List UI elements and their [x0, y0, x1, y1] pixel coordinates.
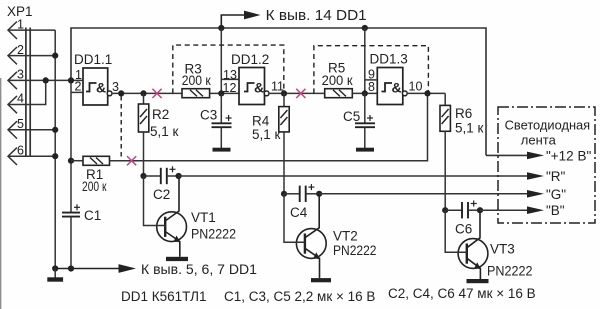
- svg-text:C3: C3: [200, 108, 217, 123]
- svg-text:6: 6: [17, 143, 24, 157]
- svg-text:5,1 к: 5,1 к: [150, 124, 179, 139]
- svg-text:К выв. 14 DD1: К выв. 14 DD1: [266, 8, 367, 24]
- svg-text:10: 10: [409, 80, 423, 94]
- node: rail to DD1.2 branch: [218, 25, 224, 31]
- svg-text:200 к: 200 к: [322, 73, 353, 88]
- node: rail to DD1.3 branch: [362, 25, 368, 31]
- transistor Q3: VT3: [445, 210, 532, 283]
- svg-text:&: &: [392, 80, 402, 96]
- wire: rail drop to channel3 node: [364, 28, 366, 93]
- connector XP1 pin 1: [8, 22, 55, 40]
- svg-text:C6: C6: [455, 222, 472, 237]
- connector XP1 pin 3: [8, 72, 83, 89]
- svg-text:С1, С3, С5 2,2 мк × 16 В: С1, С3, С5 2,2 мк × 16 В: [224, 289, 375, 304]
- cut mark X1: [152, 89, 161, 98]
- op-amp U1: gate DD1.1: [71, 52, 119, 105]
- svg-text:&: &: [254, 80, 264, 96]
- connector XP1 pin 4: [8, 80, 46, 113]
- svg-text:4: 4: [17, 92, 24, 106]
- capacitor C4: [281, 184, 322, 220]
- svg-text:12: 12: [223, 81, 237, 95]
- cut mark X3: [127, 156, 136, 165]
- node: DD1.1 input junction: [68, 77, 74, 83]
- node: feedback branch: [424, 90, 430, 96]
- dashed suggestion line: [120, 96, 122, 158]
- pin 13 stub: [221, 78, 239, 80]
- node: channel2 input: [218, 90, 224, 96]
- node: pin5 junction: [52, 127, 58, 133]
- capacitor C6: [442, 201, 483, 237]
- wire: B row: [480, 209, 528, 211]
- svg-text:DD1.2: DD1.2: [231, 52, 269, 67]
- svg-text:3: 3: [17, 68, 24, 82]
- svg-text:2: 2: [17, 43, 24, 57]
- arrow to pin 14 DD1: [221, 15, 244, 28]
- svg-text:5: 5: [17, 117, 24, 131]
- svg-text:VT1: VT1: [191, 210, 216, 225]
- pin 9 stub: [365, 79, 378, 81]
- svg-text:"B": "B": [546, 203, 565, 218]
- svg-text:DD1.1: DD1.1: [74, 52, 112, 67]
- svg-text:8: 8: [368, 80, 375, 94]
- output bubble pin 10: [402, 91, 407, 96]
- resistor R2: [138, 93, 178, 176]
- svg-text:C4: C4: [290, 205, 308, 220]
- node: pins3-4 junction: [43, 77, 49, 83]
- connector XP1 body double line: [26, 28, 30, 157]
- svg-text:PN2222: PN2222: [191, 227, 236, 242]
- channel 3 dashed box: [314, 46, 429, 94]
- LED strip box: [498, 107, 595, 223]
- wire: rail drop to channel2 node: [220, 28, 222, 93]
- svg-text:PN2222: PN2222: [333, 243, 377, 258]
- resistor R1: [68, 156, 110, 194]
- svg-text:DD1 К561ТЛ1: DD1 К561ТЛ1: [121, 289, 206, 304]
- svg-text:5,1 к: 5,1 к: [455, 121, 484, 136]
- svg-text:200 к: 200 к: [182, 73, 211, 88]
- output bubble pin 3: [107, 91, 112, 96]
- node: pin6 junction: [52, 153, 58, 159]
- wire: R row: [179, 175, 528, 177]
- svg-text:PN2222: PN2222: [487, 264, 533, 279]
- svg-text:&: &: [96, 80, 106, 96]
- wire: feedback row: [110, 93, 428, 160]
- svg-text:"+12 В": "+12 В": [546, 149, 591, 164]
- svg-text:Светодиодная: Светодиодная: [505, 117, 591, 132]
- resistor R4: [252, 93, 289, 193]
- transistor Q1: VT1: [144, 176, 237, 261]
- node: channel3 input: [362, 90, 368, 96]
- wire: +12 rail top: [71, 28, 486, 155]
- scan edge artifact: [0, 78, 2, 309]
- svg-text:C2: C2: [153, 187, 170, 202]
- wire: input bus x=71 down to C1: [70, 80, 72, 212]
- wire: DD1.3 output to R6: [408, 92, 445, 94]
- svg-text:К выв. 5, 6, 7 DD1: К выв. 5, 6, 7 DD1: [141, 261, 257, 277]
- capacitor C1: [62, 204, 101, 268]
- op-amp U2: gate DD1.2: [221, 52, 284, 105]
- svg-text:VT2: VT2: [333, 229, 358, 244]
- hysteresis symbol: [86, 83, 97, 92]
- svg-text:200 к: 200 к: [82, 179, 107, 194]
- pin 2 stub: [71, 91, 83, 93]
- svg-text:VT3: VT3: [490, 242, 515, 257]
- wire: G row: [319, 193, 528, 195]
- wire: DD1.1 output to R3: [113, 92, 182, 94]
- svg-text:1: 1: [17, 17, 24, 31]
- capacitor C5: [343, 93, 375, 151]
- cut mark X2: [296, 89, 305, 98]
- svg-text:R6: R6: [455, 106, 472, 121]
- svg-text:С2, С4, С6 47 мк × 16 В: С2, С4, С6 47 мк × 16 В: [388, 286, 536, 301]
- resistor R5: [322, 61, 378, 98]
- svg-text:лента: лента: [521, 132, 557, 147]
- resistor R3: [182, 62, 239, 98]
- capacitor C3: [200, 93, 232, 151]
- node: pin2 junction: [52, 53, 58, 59]
- connector XP1 pin 2: [8, 47, 55, 64]
- svg-text:C5: C5: [343, 109, 360, 124]
- svg-text:"G": "G": [546, 187, 566, 202]
- transistor Q2: VT2: [284, 194, 377, 283]
- svg-text:DD1.3: DD1.3: [370, 52, 408, 67]
- connector XP1 pin 5: [8, 121, 55, 138]
- svg-text:3: 3: [112, 80, 119, 94]
- wire: +12V row: [486, 154, 528, 156]
- wire: ground bus x=55: [54, 30, 56, 268]
- svg-text:"R": "R": [546, 169, 566, 184]
- capacitor C2: [140, 166, 181, 202]
- svg-text:5,1 к: 5,1 к: [252, 127, 281, 142]
- hysteresis symbol: [244, 83, 255, 92]
- ground: [54, 269, 56, 278]
- node: R4 branch: [281, 90, 287, 96]
- svg-text:2: 2: [75, 80, 82, 94]
- connector XP1 pin 6: [8, 148, 55, 165]
- op-amp U3: gate DD1.3: [365, 52, 423, 105]
- hysteresis symbol: [382, 83, 393, 92]
- wire: DD1.2 output to R5: [270, 92, 325, 94]
- output bubble pin 11: [264, 91, 269, 96]
- svg-text:C1: C1: [84, 208, 101, 223]
- resistor R6: [440, 93, 484, 210]
- node: dashed branch: [118, 90, 124, 96]
- wire: bottom common row: [55, 268, 119, 270]
- channel 2 dashed box: [173, 45, 284, 93]
- node: R2 top: [140, 90, 146, 96]
- svg-text:R2: R2: [152, 107, 169, 122]
